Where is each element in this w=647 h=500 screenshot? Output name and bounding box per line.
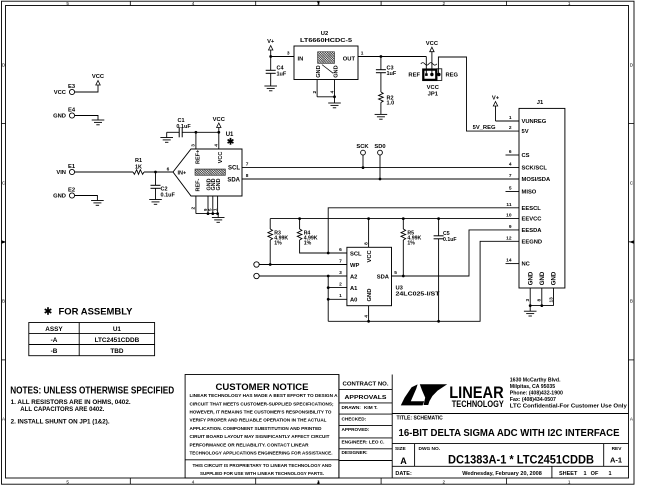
svg-text:EEGND: EEGND: [522, 239, 543, 245]
svg-text:0.1uF: 0.1uF: [161, 193, 176, 199]
jumper JP1 shunt: [423, 70, 436, 80]
svg-text:5: 5: [66, 479, 69, 484]
logo Linear Technology: [401, 384, 424, 405]
svg-text:1: 1: [583, 471, 586, 477]
svg-text:R1: R1: [135, 158, 142, 164]
star (U1 assembly mark): [230, 138, 232, 145]
svg-text:4: 4: [192, 1, 195, 6]
U2 internal pointer line: [322, 65, 333, 74]
svg-text:13: 13: [548, 297, 554, 303]
svg-text:A0: A0: [350, 298, 357, 304]
svg-text:TITLE: SCHEMATIC: TITLE: SCHEMATIC: [397, 416, 444, 422]
wire: [271, 56, 294, 58]
op-amp U1 LTC2451 outline: [173, 149, 242, 196]
svg-text:5V_REG: 5V_REG: [473, 125, 496, 131]
svg-text:2: 2: [443, 479, 446, 484]
svg-text:DC1383A-1 * LTC2451CDDB: DC1383A-1 * LTC2451CDDB: [448, 455, 594, 467]
node junction SCL/SCK: [362, 166, 365, 169]
wire J1 ground bus: [530, 305, 553, 307]
svg-text:1K: 1K: [135, 165, 142, 171]
svg-text:VCC: VCC: [218, 152, 224, 164]
svg-text:GND: GND: [539, 271, 546, 285]
node junction EESCL/R4/SCL: [327, 252, 330, 255]
svg-text:LTC Confidential-For Customer: LTC Confidential-For Customer Use Only: [510, 404, 627, 410]
svg-text:1.0: 1.0: [387, 101, 395, 107]
wire EEVCC rail: [270, 218, 519, 220]
capacitor C1: [167, 131, 180, 133]
svg-text:6: 6: [509, 149, 512, 155]
wire pin4 VCC: [218, 132, 220, 149]
ground (C4): [264, 85, 277, 87]
svg-text:5: 5: [66, 1, 69, 6]
wire EESCL net: [328, 208, 519, 253]
wire pin3 REF+: [195, 132, 197, 149]
wire WP: [259, 264, 347, 266]
svg-text:2: 2: [191, 207, 197, 210]
capacitor C5: [438, 219, 440, 236]
svg-text:2. INSTALL SHUNT ON JP1 (1&2): 2. INSTALL SHUNT ON JP1 (1&2).: [11, 419, 110, 426]
svg-text:6: 6: [167, 166, 170, 172]
power VCC (E3): [96, 81, 100, 86]
U1 bottom pins 2,9,5,1 wires: [195, 196, 197, 214]
svg-text:4: 4: [509, 162, 512, 168]
wire: [496, 120, 520, 122]
svg-text:U1: U1: [113, 326, 122, 333]
node IN+ junction: [154, 171, 157, 174]
wire: [75, 116, 98, 121]
svg-text:Phone: (408)432-1900: Phone: (408)432-1900: [510, 391, 563, 397]
svg-text:1%: 1%: [274, 241, 282, 247]
svg-text:5: 5: [509, 186, 512, 192]
svg-text:3: 3: [191, 144, 197, 147]
svg-text:PERFORMANCE OR RELIABILITY. C: PERFORMANCE OR RELIABILITY. CONTACT LINE…: [190, 442, 310, 447]
svg-text:5V: 5V: [522, 129, 529, 135]
wire: [362, 155, 364, 168]
svg-text:2: 2: [443, 1, 446, 6]
svg-text:EESDA: EESDA: [522, 228, 543, 234]
ground (U2): [334, 97, 336, 103]
svg-text:CIRCUIT THAT MEETS CUSTOMER-SU: CIRCUIT THAT MEETS CUSTOMER-SUPPLIED SPE…: [190, 401, 334, 406]
wire VIN: [75, 171, 133, 173]
svg-text:10: 10: [506, 213, 512, 219]
svg-text:DATE:: DATE:: [395, 471, 412, 477]
power VCC (U1): [218, 128, 220, 133]
svg-text:B: B: [630, 299, 633, 304]
svg-text:1: 1: [568, 479, 571, 484]
svg-text:CIRUIT BOARD LAYOUT MAY SIGNIF: CIRUIT BOARD LAYOUT MAY SIGNIFICANTLY AF…: [190, 434, 330, 439]
svg-text:A: A: [400, 456, 407, 466]
svg-text:3: 3: [339, 270, 342, 276]
svg-text:0.1uF: 0.1uF: [176, 124, 191, 130]
svg-text:8: 8: [363, 242, 369, 245]
svg-text:1: 1: [608, 471, 611, 477]
customer notice box: [185, 375, 339, 479]
J1 pin 6 CS: [506, 154, 520, 156]
svg-text:5: 5: [394, 270, 397, 276]
svg-text:U3: U3: [396, 285, 404, 291]
wire: [75, 85, 98, 92]
wire REF to JP1: [425, 57, 427, 75]
svg-text:2: 2: [509, 125, 512, 131]
svg-text:0.1uF: 0.1uF: [443, 237, 457, 243]
svg-text:ALL CAPACITORS ARE 0402.: ALL CAPACITORS ARE 0402.: [20, 406, 104, 413]
svg-text:APPLICATION. COMPONENT SUBSTI: APPLICATION. COMPONENT SUBSTITUTION AND …: [190, 426, 323, 431]
svg-text:2: 2: [312, 91, 318, 94]
ground (C1): [166, 132, 168, 137]
svg-text:VCC: VCC: [213, 117, 226, 123]
assembly table: [29, 323, 155, 356]
wire REG to 5V_REG: [438, 57, 519, 131]
svg-text:1%: 1%: [407, 241, 415, 247]
svg-text:LINEAR TECHNOLOGY HAS MADE A B: LINEAR TECHNOLOGY HAS MADE A BEST EFFORT…: [190, 393, 339, 398]
svg-text:1: 1: [361, 51, 364, 57]
svg-text:VIN: VIN: [56, 170, 66, 176]
svg-text:CONTRACT NO.: CONTRACT NO.: [343, 381, 390, 387]
svg-text:REF+: REF+: [195, 150, 201, 164]
turret (A2): [254, 273, 259, 278]
svg-text:8: 8: [246, 173, 249, 179]
svg-text:GND: GND: [367, 289, 373, 302]
svg-text:APPROVALS: APPROVALS: [345, 395, 387, 401]
svg-text:11: 11: [506, 202, 511, 208]
svg-text:1: 1: [339, 293, 342, 299]
svg-text:A2: A2: [350, 274, 357, 280]
svg-text:VCC: VCC: [426, 41, 439, 47]
node REF+/VCC junctions: [195, 131, 198, 134]
svg-text:6: 6: [339, 247, 342, 253]
svg-text:ASSY: ASSY: [45, 326, 63, 333]
resistor R3: [269, 219, 271, 229]
svg-text:GND: GND: [333, 65, 339, 77]
svg-text:VCC: VCC: [427, 85, 440, 91]
svg-text:REG: REG: [446, 73, 459, 79]
svg-text:DESIGNER:: DESIGNER:: [342, 450, 368, 455]
svg-text:GND: GND: [316, 65, 322, 77]
svg-text:SDA: SDA: [227, 177, 240, 183]
svg-text:FOR ASSEMBLY: FOR ASSEMBLY: [59, 306, 133, 316]
svg-text:A1: A1: [350, 286, 358, 292]
svg-text:OF: OF: [591, 471, 599, 477]
title block grid: [338, 375, 340, 479]
svg-text:U1: U1: [226, 132, 234, 138]
svg-text:REV: REV: [612, 446, 623, 452]
wire A2: [259, 275, 347, 277]
svg-text:Wednesday, February 20, 2008: Wednesday, February 20, 2008: [462, 471, 542, 477]
svg-text:GND: GND: [53, 194, 66, 200]
svg-text:VCC: VCC: [92, 74, 105, 80]
U3 GND pin 4: [368, 306, 370, 322]
ground (J1): [529, 306, 531, 312]
U2 hatched block: [318, 52, 335, 64]
svg-text:7: 7: [246, 162, 249, 168]
capacitor C2: [155, 172, 157, 185]
svg-text:TECHNOLOGY APPLICATIONS ENGINE: TECHNOLOGY APPLICATIONS ENGINEERING FOR …: [190, 451, 333, 456]
node V+/C4 junction: [269, 55, 272, 58]
svg-text:EEVCC: EEVCC: [522, 217, 543, 223]
svg-text:LT6660HCDC-5: LT6660HCDC-5: [300, 38, 353, 44]
svg-text:SCK: SCK: [356, 144, 369, 150]
svg-text:4: 4: [192, 479, 195, 484]
svg-text:SDA: SDA: [377, 274, 390, 280]
svg-text:SCL: SCL: [228, 166, 240, 172]
svg-text:12: 12: [506, 235, 512, 241]
svg-text:J1: J1: [537, 100, 544, 106]
svg-text:KIM T.: KIM T.: [364, 405, 378, 410]
svg-text:V+: V+: [492, 96, 500, 102]
svg-text:JP1: JP1: [428, 91, 439, 97]
svg-text:9: 9: [509, 224, 512, 230]
capacitor C4: [270, 57, 272, 71]
svg-text:1. ALL RESISTORS ARE IN OHMS,: 1. ALL RESISTORS ARE IN OHMS, 0402.: [11, 399, 131, 406]
svg-text:VUNREG: VUNREG: [522, 119, 547, 125]
svg-text:GND: GND: [551, 271, 558, 285]
svg-text:CUSTOMER NOTICE: CUSTOMER NOTICE: [216, 382, 309, 393]
svg-text:SIZE: SIZE: [395, 446, 406, 452]
svg-text:3: 3: [525, 299, 531, 302]
node junction SDA/SD0: [379, 178, 382, 181]
svg-text:VCC: VCC: [367, 249, 373, 262]
J1 pin 5 MISO: [506, 191, 520, 193]
svg-text:B: B: [2, 299, 5, 304]
U3 VCC pin 8: [368, 219, 370, 248]
svg-text:IN: IN: [298, 57, 304, 63]
svg-text:MISO: MISO: [522, 190, 537, 196]
U1 hatched block: [195, 169, 225, 175]
resistor R5: [402, 219, 404, 229]
node junction R5/SDA: [402, 275, 405, 278]
svg-text:DWG NO.: DWG NO.: [419, 446, 441, 452]
wire A2/A1/A0 tie-down: [327, 276, 329, 321]
svg-text:WP: WP: [350, 263, 359, 269]
wire EESDA net: [392, 230, 520, 276]
svg-text:4: 4: [363, 315, 369, 318]
svg-text:GND: GND: [216, 178, 222, 190]
U2 bottom pins: [316, 80, 318, 97]
svg-text:SCK/SCL: SCK/SCL: [522, 166, 548, 172]
svg-text:SHEET: SHEET: [559, 471, 578, 477]
svg-text:THIS CIRCUIT IS PROPRIETARY TO: THIS CIRCUIT IS PROPRIETARY TO LINEAR TE…: [193, 463, 333, 468]
svg-text:CHECKED:: CHECKED:: [342, 417, 367, 422]
J1 pin 14 NC: [506, 263, 520, 265]
svg-text:VERIFY PROPER AND RELIABLE OPE: VERIFY PROPER AND RELIABLE OPERATION IN …: [190, 418, 327, 423]
svg-text:8: 8: [537, 299, 543, 302]
node C3 junction: [380, 55, 383, 58]
star (assembly note): [47, 307, 49, 315]
resistor R2: [379, 92, 384, 103]
svg-text:ENGINEER: LEO C.: ENGINEER: LEO C.: [342, 440, 385, 445]
svg-text:DRAWN:: DRAWN:: [342, 405, 362, 410]
JP1 pin squiggle: [421, 63, 437, 66]
svg-text:V+: V+: [267, 39, 275, 45]
svg-text:REF: REF: [408, 73, 420, 79]
capacitor C3: [380, 57, 382, 70]
wire EEGND net: [328, 241, 519, 321]
svg-text:SD0: SD0: [374, 144, 385, 150]
svg-text:NC: NC: [522, 262, 531, 268]
svg-text:SCL: SCL: [350, 251, 362, 257]
turret (WP): [254, 262, 259, 267]
svg-text:APPROVED:: APPROVED:: [342, 427, 370, 432]
svg-text:2: 2: [339, 282, 342, 288]
svg-text:HOWEVER, IT REMAINS THE CUSTOM: HOWEVER, IT REMAINS THE CUSTOMER'S RESPO…: [190, 410, 332, 415]
ground (C2): [149, 199, 162, 201]
svg-text:NOTES: UNLESS OTHERWISE SPECI: NOTES: UNLESS OTHERWISE SPECIFIED: [10, 385, 174, 396]
svg-text:REF-: REF-: [195, 179, 201, 192]
svg-text:OUT: OUT: [343, 57, 356, 63]
svg-text:4: 4: [329, 91, 335, 94]
svg-text:LTC2451CDDB: LTC2451CDDB: [95, 337, 140, 344]
svg-text:24LC025-I/ST: 24LC025-I/ST: [396, 292, 441, 298]
eeprom U3 24LC025: [347, 247, 392, 305]
svg-text:7: 7: [339, 258, 342, 264]
svg-text:Milpitas, CA 95035: Milpitas, CA 95035: [510, 384, 555, 390]
wire U1 ground bus: [196, 213, 218, 215]
wire: [144, 171, 173, 173]
ground (E2): [91, 200, 104, 202]
wire: [379, 155, 381, 179]
svg-text:1: 1: [509, 115, 512, 121]
node junction R3/WP: [269, 263, 272, 266]
svg-text:IN+: IN+: [178, 170, 187, 176]
wire: [75, 196, 98, 201]
svg-text:1630 McCarthy Blvd.: 1630 McCarthy Blvd.: [510, 377, 561, 383]
svg-text:A-1: A-1: [610, 455, 622, 464]
ground (E4): [92, 119, 105, 121]
svg-text:VCC: VCC: [54, 90, 67, 96]
svg-text:TECHNOLOGY: TECHNOLOGY: [452, 399, 504, 409]
ground (R2): [375, 113, 388, 115]
ground (U1): [217, 214, 219, 218]
wire A1: [328, 287, 347, 289]
svg-text:GND: GND: [527, 271, 534, 285]
svg-text:EESCL: EESCL: [522, 206, 542, 212]
wire A0: [328, 298, 347, 300]
node junction C5/EEGND: [437, 320, 440, 323]
svg-text:14: 14: [506, 258, 512, 264]
svg-text:MOSI/SDA: MOSI/SDA: [522, 177, 551, 183]
svg-text:U2: U2: [321, 31, 328, 37]
node junction A2: [327, 275, 330, 278]
svg-text:1uF: 1uF: [387, 71, 397, 77]
svg-text:GND: GND: [53, 114, 66, 120]
svg-text:1%: 1%: [304, 241, 312, 247]
svg-text:3: 3: [287, 51, 290, 57]
resistor R4: [299, 219, 301, 229]
svg-text:1: 1: [568, 1, 571, 6]
svg-text:Fax: (408)434-0507: Fax: (408)434-0507: [510, 397, 556, 403]
svg-text:7: 7: [509, 173, 512, 179]
svg-text:TBD: TBD: [110, 348, 124, 355]
svg-text:SUPPLIED FOR USE WITH LINEAR T: SUPPLIED FOR USE WITH LINEAR TECHNOLOGY …: [200, 471, 324, 476]
svg-text:1uF: 1uF: [277, 71, 287, 77]
svg-text:-B: -B: [51, 348, 58, 355]
svg-text:4: 4: [214, 144, 220, 147]
svg-text:CS: CS: [522, 153, 530, 159]
wire U2 OUT: [358, 56, 426, 58]
svg-text:16-BIT DELTA SIGMA ADC WITH I2: 16-BIT DELTA SIGMA ADC WITH I2C INTERFAC…: [399, 428, 620, 439]
svg-text:-A: -A: [51, 337, 58, 344]
